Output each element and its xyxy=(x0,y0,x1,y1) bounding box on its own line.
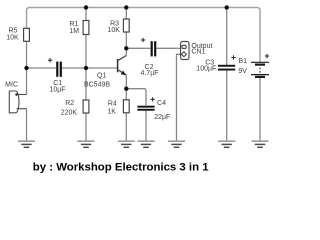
svg-text:B1: B1 xyxy=(238,58,247,65)
svg-text:10µF: 10µF xyxy=(49,87,65,94)
svg-text:1K: 1K xyxy=(107,109,116,116)
svg-text:10K: 10K xyxy=(6,34,19,41)
svg-text:22µF: 22µF xyxy=(154,114,170,121)
svg-text:MIC: MIC xyxy=(5,82,18,89)
svg-text:4.7µF: 4.7µF xyxy=(140,70,158,77)
svg-text:R2: R2 xyxy=(65,100,74,107)
svg-text:R4: R4 xyxy=(108,101,117,108)
svg-text:10K: 10K xyxy=(107,27,120,34)
svg-text:C4: C4 xyxy=(157,100,166,107)
svg-text:9V: 9V xyxy=(238,68,247,75)
svg-text:100µF: 100µF xyxy=(196,65,216,72)
svg-text:220K: 220K xyxy=(61,110,78,117)
svg-text:R1: R1 xyxy=(70,21,79,28)
svg-text:Q1: Q1 xyxy=(97,72,106,79)
svg-text:by : Workshop Electronics 3 in: by : Workshop Electronics 3 in 1 xyxy=(33,162,209,174)
svg-text:CN1: CN1 xyxy=(191,48,205,55)
svg-text:BC549B: BC549B xyxy=(84,81,110,88)
svg-text:R5: R5 xyxy=(9,27,18,34)
svg-text:1M: 1M xyxy=(69,28,79,35)
